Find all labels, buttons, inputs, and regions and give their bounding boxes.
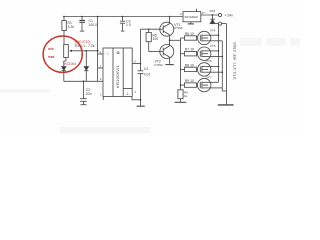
svg-text:1k: 1k <box>184 94 188 98</box>
label VT5 <box>210 44 216 48</box>
label U2 <box>185 15 199 19</box>
label VT4-VT7 type vertical <box>233 42 237 79</box>
svg-text:0,01: 0,01 <box>144 72 151 76</box>
capacitor C1 <box>79 17 85 32</box>
wire VCC drop to IC <box>97 17 99 82</box>
label C1 100.0 <box>89 19 98 27</box>
svg-text:100: 100 <box>153 37 159 41</box>
node dot VD2 wiper <box>86 50 88 52</box>
svg-text:R2 1,1 - 7,2k: R2 1,1 - 7,2k <box>75 44 95 48</box>
svg-text:C4: C4 <box>144 67 148 71</box>
label pin 2 <box>100 65 102 69</box>
ground below C4 <box>137 105 145 107</box>
svg-text:⊥: ⊥ <box>126 91 130 96</box>
label VD3 <box>209 9 215 13</box>
label pin 4 <box>100 51 102 55</box>
svg-text:R6 10: R6 10 <box>185 32 194 36</box>
label C2 <box>86 88 92 96</box>
wire ground drop <box>226 24 228 105</box>
label R9 10 <box>185 79 194 83</box>
svg-text:KR142EN8: KR142EN8 <box>185 15 199 19</box>
label pin 1 <box>134 90 136 94</box>
resistor R1 <box>62 17 66 45</box>
label VD1 VD2 <box>65 62 77 66</box>
label VT6 <box>206 59 212 63</box>
label pin 3 <box>134 60 136 64</box>
label VT2 <box>155 59 164 66</box>
label R1 3.2k <box>68 21 75 29</box>
wire drain bus <box>218 24 220 83</box>
svg-text:VT4: VT4 <box>210 28 216 32</box>
resistor R9 <box>181 83 198 87</box>
transistor VT6 mosfet <box>198 63 223 76</box>
label VT1 <box>174 23 183 30</box>
label R4 1k <box>184 90 188 97</box>
svg-text:VD3: VD3 <box>209 9 215 13</box>
wire emitters to gate bus <box>170 39 181 41</box>
resistor R4 pulldown <box>175 90 187 103</box>
node dot C2 junction <box>83 80 85 82</box>
node dot base tee <box>148 28 150 30</box>
svg-text:G: G <box>117 50 120 55</box>
node dot pin3 tee <box>140 63 142 65</box>
wire wiper to IC <box>77 50 98 52</box>
node dot rail IC <box>97 16 99 18</box>
svg-text:→□: →□ <box>104 52 109 56</box>
svg-text:1.0: 1.0 <box>126 23 131 27</box>
node dot ground join <box>140 99 142 101</box>
pin stub bottom left <box>102 97 104 101</box>
transistor VT7 mosfet <box>198 78 223 91</box>
diode VD3 <box>210 15 215 24</box>
svg-text:min: min <box>48 47 54 51</box>
node dot rail C3 <box>122 16 124 18</box>
wire pin5 to C4 <box>132 64 140 71</box>
wire lower node <box>64 80 103 82</box>
label R7 10 <box>185 48 194 52</box>
resistor R5 <box>146 29 163 51</box>
pin stub 4 <box>98 53 103 55</box>
svg-text:VT6: VT6 <box>206 59 212 63</box>
transistor VT2 <box>160 40 174 64</box>
terminal +24v <box>218 13 221 16</box>
wire top supply rail <box>63 16 182 18</box>
label pin 1 <box>100 77 102 81</box>
op-amp U1 timer IC <box>103 48 132 97</box>
label C3 1.0 <box>126 19 131 27</box>
svg-text:VT7: VT7 <box>206 76 212 80</box>
wire IC to driver bases <box>141 29 164 63</box>
node dot VD3 top <box>212 14 214 16</box>
node dot rail C1 <box>81 16 83 18</box>
annotation red circle <box>43 36 82 72</box>
label pin 17 <box>202 11 206 15</box>
capacitor C4 <box>138 71 144 106</box>
label C4 0.01 <box>144 67 151 76</box>
diode VD1 <box>62 67 66 82</box>
svg-text:VT4-VT7 IRF 2505: VT4-VT7 IRF 2505 <box>233 42 237 79</box>
svg-text:KT815: KT815 <box>174 26 183 30</box>
label VT7 <box>206 76 212 80</box>
svg-text:KT814: KT814 <box>155 63 164 67</box>
label R5 100 <box>153 33 159 41</box>
svg-text:R9 10: R9 10 <box>185 79 194 83</box>
transistor VT1 <box>160 17 174 41</box>
pin stub 17 up <box>196 9 198 12</box>
svg-text:VT5: VT5 <box>210 44 216 48</box>
capacitor C2 <box>80 81 87 104</box>
terminal output low <box>213 22 227 25</box>
label R2 values <box>75 40 95 48</box>
resistor R6 <box>181 36 198 40</box>
label pin 2 <box>180 12 182 16</box>
pin stub 2 <box>98 67 103 69</box>
node dot rail R1 <box>63 16 65 18</box>
ground below VT2 <box>165 64 173 66</box>
label R6 10 <box>185 32 194 36</box>
artifact faint blocks <box>0 38 300 133</box>
node dot emitters <box>169 39 171 41</box>
svg-text:KD1004: KD1004 <box>65 62 77 66</box>
svg-text:KR1006VI1: KR1006VI1 <box>115 64 120 88</box>
svg-text:R7 10: R7 10 <box>185 48 194 52</box>
potentiometer R2 <box>64 45 77 67</box>
svg-text:17: 17 <box>202 11 206 15</box>
resistor R8 <box>181 67 198 71</box>
wire IC ground corner <box>132 97 141 100</box>
svg-text:max: max <box>48 55 55 59</box>
label R8 10 <box>185 63 194 67</box>
resistor R7 <box>181 52 198 56</box>
svg-text:3.2k: 3.2k <box>68 25 75 29</box>
svg-text:20n: 20n <box>86 92 92 96</box>
transistor VT5 mosfet <box>198 47 223 60</box>
label pin 1 bottom <box>100 93 102 97</box>
voltage regulator U2 <box>183 12 201 24</box>
label +24v <box>225 13 234 17</box>
wire source bus <box>221 41 223 91</box>
wire regulator output <box>201 14 219 16</box>
node dot rail VT1 <box>169 16 171 18</box>
node dot wiper junction <box>97 50 99 52</box>
label VT4 <box>210 28 216 32</box>
node dot bus R9 <box>180 84 182 86</box>
ground bar bottom right <box>218 104 234 106</box>
svg-text:R8 10: R8 10 <box>185 63 194 67</box>
svg-text:100.0: 100.0 <box>89 23 98 27</box>
label min max <box>48 47 55 59</box>
capacitor C3 <box>120 17 125 32</box>
label IC internal <box>104 50 130 96</box>
wire gate bus <box>180 38 182 90</box>
diode VD2 <box>84 51 88 82</box>
node dots drain bus <box>218 34 220 36</box>
transistor VT4 mosfet <box>198 31 223 44</box>
svg-text:+ 24v: + 24v <box>225 13 234 17</box>
